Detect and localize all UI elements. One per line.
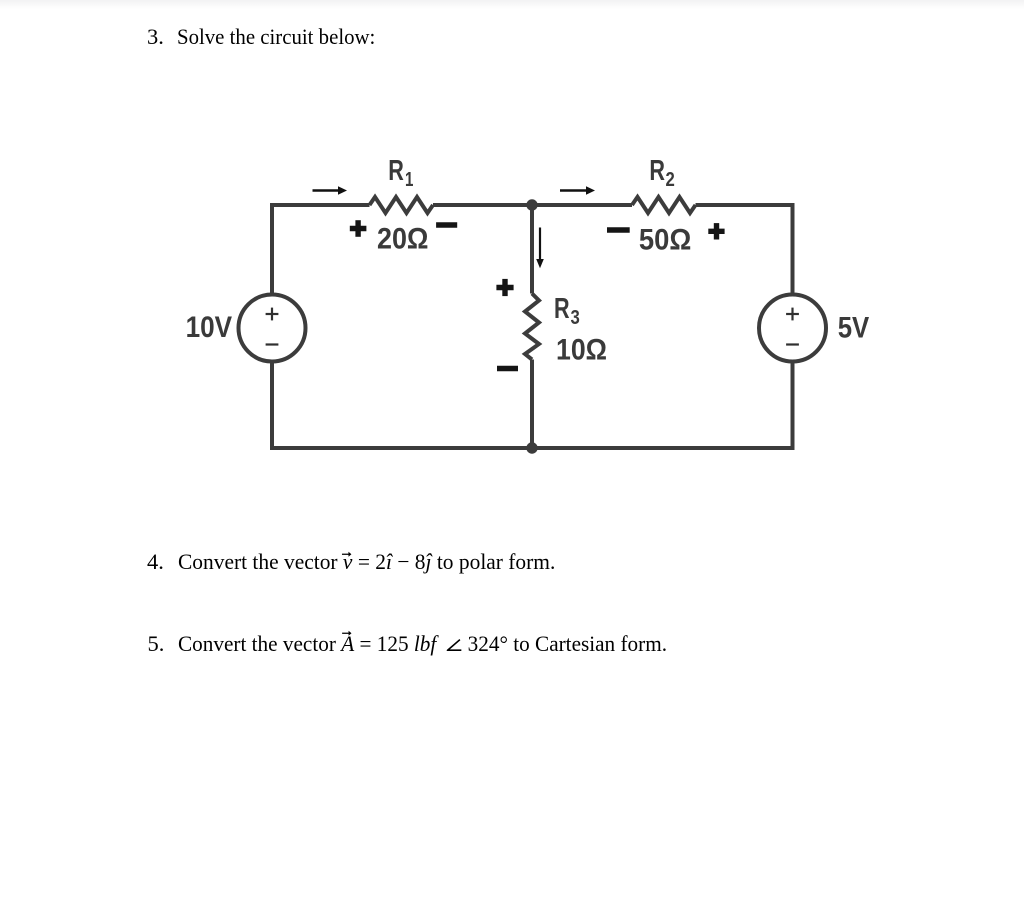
V2 polarity plus bbox=[786, 308, 799, 321]
svg-text:3: 3 bbox=[571, 307, 580, 329]
current arrow I2 bbox=[560, 186, 595, 195]
svg-text:20Ω: 20Ω bbox=[377, 223, 429, 256]
current arrow I3 down bbox=[536, 228, 544, 269]
wire top-middle segment bbox=[433, 203, 632, 207]
label R3 bbox=[554, 293, 580, 329]
svg-text:10V: 10V bbox=[186, 311, 233, 344]
resistor R1 bbox=[370, 197, 434, 213]
svg-text:1: 1 bbox=[405, 169, 413, 191]
R1 polarity plus bbox=[350, 220, 367, 237]
node A top bbox=[526, 199, 537, 210]
R2 polarity minus bbox=[607, 227, 630, 232]
svg-text:5V: 5V bbox=[838, 312, 870, 345]
R3 polarity plus bbox=[496, 279, 513, 296]
voltage source V1 circle bbox=[239, 295, 306, 362]
svg-text:50Ω: 50Ω bbox=[639, 223, 691, 256]
R3 polarity minus bbox=[497, 366, 518, 371]
resistor R3 bbox=[525, 294, 539, 360]
V1 polarity minus bbox=[266, 343, 279, 345]
voltage source V2 circle bbox=[759, 295, 826, 362]
top gradient bar bbox=[0, 0, 1024, 9]
label R2 bbox=[649, 155, 674, 191]
wire middle branch lower bbox=[530, 360, 534, 449]
wire middle branch upper bbox=[530, 205, 534, 294]
V1 polarity plus bbox=[266, 308, 279, 321]
svg-text:R: R bbox=[388, 155, 404, 187]
label R1 bbox=[388, 155, 413, 191]
node B bottom bbox=[526, 442, 537, 453]
svg-text:10Ω: 10Ω bbox=[556, 334, 607, 367]
problem 3 heading bbox=[147, 26, 391, 49]
wire right-lower segment bbox=[534, 362, 793, 449]
wire left-upper segment bbox=[270, 205, 274, 295]
wire bottom-left segment bbox=[272, 362, 530, 449]
svg-text:R: R bbox=[649, 155, 665, 187]
R1 polarity minus bbox=[436, 222, 457, 227]
problem 5 text bbox=[148, 633, 698, 656]
current arrow I1 bbox=[313, 186, 348, 195]
problem 4 text bbox=[147, 551, 574, 574]
svg-text:R: R bbox=[554, 293, 570, 325]
resistor R2 bbox=[632, 197, 696, 213]
V2 polarity minus bbox=[786, 343, 799, 345]
R2 polarity plus bbox=[708, 223, 724, 239]
wire top-right segment bbox=[696, 205, 793, 295]
wire top-left segment bbox=[272, 205, 370, 207]
svg-text:2: 2 bbox=[666, 169, 675, 191]
